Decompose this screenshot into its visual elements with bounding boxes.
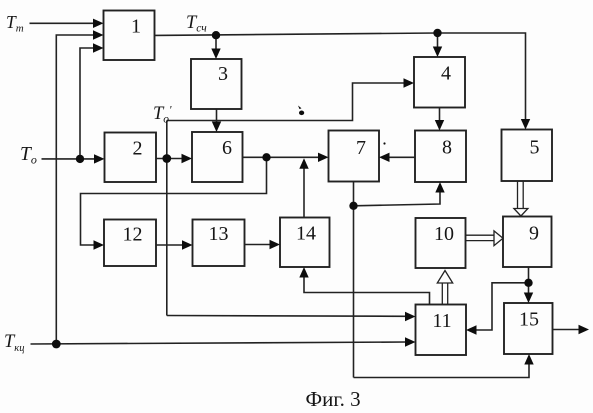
speckle mark e near To' line (298, 106, 304, 116)
wire block 7 output vertical (353, 182, 355, 378)
open arrow block 5 to block 9 (518, 181, 524, 209)
wire block 3 to block 6 (216, 109, 218, 123)
wire block 15 output (553, 329, 580, 331)
svg-text:12: 12 (123, 224, 143, 246)
block 2 (105, 133, 157, 183)
svg-text:Tо': Tо' (153, 104, 172, 126)
arrowhead into block 7 right (379, 153, 390, 162)
junction node To (76, 155, 84, 163)
arrowhead final output (579, 325, 590, 334)
speckle near block 7 (383, 142, 385, 144)
wire block 6 output feedback to block 12 (81, 157, 267, 245)
junction node after block 6 (262, 153, 270, 161)
wire block 13 to block 14 (245, 244, 271, 246)
svg-text:5: 5 (530, 137, 540, 159)
junction node below block 9 (524, 279, 532, 287)
wire To branch vertical to block 1 input 3 (80, 48, 94, 159)
wire To input to block 2 (42, 158, 96, 160)
block 3 (191, 59, 242, 109)
block 14 (280, 218, 330, 268)
arrowhead into block 14 bottom (299, 267, 308, 278)
svg-text:11: 11 (432, 310, 451, 332)
wire branch down into block 4 (437, 33, 439, 48)
arrowhead into block 4 left (404, 78, 415, 87)
arrowhead into block 11 input 1 (405, 312, 416, 321)
wire block 2 output to block 6 (156, 158, 183, 160)
arrowhead into block 6 top (212, 122, 221, 133)
wire To' node to block 11 input 1 (167, 315, 406, 318)
open arrow block 11 to block 10 (442, 283, 447, 305)
block 12 (104, 220, 156, 267)
block 4 (414, 57, 465, 108)
svg-text:2: 2 (133, 138, 143, 160)
wire block 7 output to block 8 bottom (354, 192, 441, 206)
arrowhead merge from block 14 (299, 158, 308, 169)
svg-text:14: 14 (296, 223, 316, 245)
svg-text:Tсч: Tсч (186, 13, 207, 35)
arrowhead into block 8 bottom (435, 182, 444, 193)
arrowhead into block 5 top (521, 119, 530, 130)
block 5 (502, 130, 553, 182)
wire branch down into block 3 (215, 35, 217, 49)
wire To' node vertical (166, 121, 168, 316)
block 9 (503, 217, 552, 268)
junction node below block 7 (349, 202, 357, 210)
arrowhead into block 4 top (433, 47, 442, 58)
block 1 (104, 11, 155, 61)
svg-text:9: 9 (529, 222, 539, 244)
svg-text:7: 7 (356, 137, 366, 159)
wire block 4 to block 8 (439, 108, 441, 122)
arrowhead into block 13 (182, 240, 193, 249)
wire block 11 to block 14 bottom (304, 278, 430, 305)
svg-text:Tо: Tо (20, 144, 37, 167)
arrowhead into block 15 top (524, 293, 533, 304)
block 11 (416, 305, 467, 356)
arrowhead into block 14 left (270, 240, 281, 249)
block 8 (415, 131, 466, 183)
svg-text:13: 13 (209, 223, 229, 245)
wire block 9 output net (476, 267, 529, 330)
arrowhead into block 11 input 2 (405, 337, 416, 346)
block 15 (504, 303, 553, 354)
svg-text:8: 8 (442, 137, 452, 159)
arrowhead into block 6 left (182, 154, 193, 163)
block 10 (416, 218, 466, 268)
svg-text:Tт: Tт (6, 12, 24, 35)
arrowhead into block 1 input 1 (93, 19, 104, 28)
arrowhead into block 2 (94, 154, 105, 163)
wire Tt input to block 1 (30, 22, 95, 24)
junction node To' after block 2 (162, 154, 171, 163)
arrowhead into block 3 top (211, 49, 220, 60)
svg-text:Tкц: Tкц (4, 332, 24, 354)
wire block 12 to block 13 (156, 244, 183, 246)
junction node Tkc (52, 340, 61, 349)
arrowhead into block 15 bottom (524, 354, 533, 365)
junction node Tsch line over block 3 (212, 31, 220, 39)
block 13 (193, 220, 245, 267)
wire Tkc branch vertical to block 1 input 2 (56, 35, 94, 344)
arrowhead into block 7 left (318, 153, 329, 162)
block 6 (192, 132, 243, 182)
svg-text:10: 10 (434, 223, 454, 245)
wire block 7 output to block 15 bottom (354, 364, 530, 378)
arrowhead into block 11 right (466, 325, 477, 334)
svg-text:4: 4 (441, 63, 451, 85)
arrowhead into block 1 input 2 (93, 30, 104, 39)
wire block 6 output to block 7 (243, 156, 320, 158)
wire Tkc input line to block 11 input 2 (31, 342, 407, 344)
arrowhead into block 12 (94, 240, 105, 249)
junction node over block 4 (433, 29, 441, 37)
svg-text:1: 1 (131, 16, 141, 38)
wire block 8 output to block 7 (389, 156, 416, 158)
wire To' to block 4 left input (167, 83, 405, 121)
svg-text:3: 3 (218, 63, 228, 85)
open arrow block 10 to block 9 (466, 235, 495, 240)
arrowhead into block 8 top (435, 120, 444, 131)
svg-text:6: 6 (222, 137, 232, 159)
svg-text:Фиг. 3: Фиг. 3 (306, 387, 361, 411)
block 7 (329, 131, 380, 182)
wire block 1 output bus to block 5 (155, 33, 526, 120)
arrowhead into block 1 input 3 (93, 43, 104, 52)
svg-text:15: 15 (519, 309, 539, 331)
wire block 14 output up merge (303, 168, 305, 218)
